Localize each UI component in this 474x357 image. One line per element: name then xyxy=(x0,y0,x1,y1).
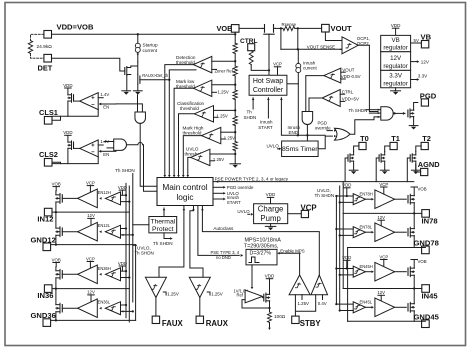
wire ladder seg4 xyxy=(234,126,236,142)
buffer EN45H xyxy=(372,262,395,281)
wire EN45L buffer out xyxy=(395,306,407,308)
wire EN12H inputs xyxy=(121,194,131,203)
svg-text:VCP: VCP xyxy=(379,254,388,259)
label T=290/305ms xyxy=(244,244,279,250)
transistor EN12H FET xyxy=(56,193,62,203)
pad T0 xyxy=(359,142,366,149)
pad GND36 xyxy=(43,319,51,327)
wire trunk t2 right xyxy=(339,186,341,311)
amp EN36H xyxy=(99,268,120,281)
svg-text:VOB: VOB xyxy=(52,181,61,186)
label 1.25V (STBY) xyxy=(298,295,310,306)
wire CLS2 FET source down xyxy=(67,148,69,163)
label Inrush current xyxy=(303,60,317,70)
supply VDD (EN45H) xyxy=(342,255,351,268)
pin GND36 label xyxy=(31,311,56,320)
wire ladder seg1 xyxy=(234,54,236,67)
ground Q1 xyxy=(122,91,131,95)
svg-text:VDD: VDD xyxy=(391,23,401,28)
wire EN78L inputs xyxy=(335,228,353,237)
wire GND45 xyxy=(348,320,426,322)
wire CLS1 loop xyxy=(52,110,98,117)
wire RAUX comp to logic xyxy=(190,206,203,277)
label EN78H xyxy=(360,191,373,196)
supply VDD (CLS1) xyxy=(63,83,72,95)
label Th SHDN (near trunk top) xyxy=(115,168,135,173)
buffer EN78L xyxy=(372,223,395,242)
svg-text:Ref: Ref xyxy=(237,293,244,298)
label 1.25V stub (UVLO) xyxy=(210,157,224,162)
pin T0 label xyxy=(360,134,369,143)
resistor ladder R2 xyxy=(233,43,237,53)
pad FAUX xyxy=(152,316,159,323)
pin GND45 label xyxy=(414,312,440,321)
wire GND12 to GND36 link xyxy=(135,245,137,321)
wire EN45H amp to buffer xyxy=(365,271,371,273)
svg-text:END: END xyxy=(289,130,299,135)
wire EN78L FET source xyxy=(413,236,415,248)
svg-text:Th SHDN: Th SHDN xyxy=(134,250,154,255)
svg-text:1.4V: 1.4V xyxy=(100,92,109,97)
label VDD=5V stub xyxy=(340,96,359,101)
wire second input AND V1 xyxy=(137,95,139,112)
arrow FAUX into logic xyxy=(183,208,186,210)
svg-text:VOUT SENSE: VOUT SENSE xyxy=(307,45,335,50)
label Th SHDN (thermal out) xyxy=(153,241,173,246)
svg-text:D=3/27%: D=3/27% xyxy=(250,251,272,257)
wire ladder seg5 xyxy=(234,151,236,164)
wire UVLO output xyxy=(186,157,190,177)
wire EN45L FET source xyxy=(413,311,415,321)
label UVLO (charge pump) xyxy=(237,209,253,215)
label Inrush END xyxy=(288,125,301,135)
wire trunk t1 right xyxy=(335,196,337,304)
amp EN12L xyxy=(99,225,120,238)
pad CLS2 xyxy=(44,159,52,167)
amp EN36L xyxy=(99,302,120,315)
wire IN36 xyxy=(52,287,129,289)
wire CLS2 loop xyxy=(52,157,98,164)
svg-text:DET: DET xyxy=(38,64,53,73)
svg-text:AGND: AGND xyxy=(418,160,440,169)
wire CTRL gate line xyxy=(268,41,270,76)
transistor PGD FET xyxy=(408,109,414,118)
svg-text:VDD=VOB: VDD=VOB xyxy=(57,23,94,32)
wire EN12H buffer out xyxy=(62,197,77,199)
supply 12V (EN12L) xyxy=(87,213,95,227)
wire VB out xyxy=(411,42,422,44)
svg-text:Controller: Controller xyxy=(253,87,284,94)
svg-text:EN45H: EN45H xyxy=(360,264,373,269)
wire EN36H FET drain xyxy=(55,267,57,271)
label Inrush START (hot swap) xyxy=(258,120,273,130)
pin FAUX label xyxy=(162,319,184,328)
block Charge Pump xyxy=(254,204,288,224)
wire trunk t3 right xyxy=(342,182,344,289)
wire GND78 to GND45 link xyxy=(347,248,349,322)
wire EN12L buffer out xyxy=(62,231,77,233)
block 12V regulator xyxy=(381,52,411,71)
wire trunk t1 left xyxy=(125,183,127,317)
label PSE TYPE 3,4 xyxy=(211,250,240,260)
wire EN36L inputs xyxy=(121,304,134,313)
transistor EN36H FET xyxy=(56,269,62,279)
svg-text:1.25V: 1.25V xyxy=(211,291,223,296)
transistor EN45H FET xyxy=(408,267,414,277)
block MPS pulse xyxy=(246,249,277,265)
pin GND12 label xyxy=(31,235,56,244)
supply VOB (IN45) xyxy=(411,259,427,268)
label UVLO ThSHDN right trunk xyxy=(315,188,335,198)
wire GND36 xyxy=(51,319,136,321)
ground PGD FET xyxy=(409,126,418,130)
wire thermal to logic xyxy=(163,208,166,217)
wire T1 gate xyxy=(376,158,379,182)
svg-text:Th: Th xyxy=(247,110,253,115)
label EN12L xyxy=(98,223,111,228)
wire EN78L buffer out xyxy=(395,231,407,233)
wire V2 output xyxy=(306,125,308,142)
svg-text:1.25V: 1.25V xyxy=(224,135,235,140)
block VB regulator xyxy=(381,35,411,51)
pad VOUT xyxy=(322,24,330,32)
svg-text:1.25V: 1.25V xyxy=(298,301,310,306)
wire EN12H FET drain xyxy=(55,191,57,195)
pin CLS2 label xyxy=(39,150,58,159)
pin IN36 label xyxy=(37,291,53,300)
comparator classification xyxy=(194,106,213,122)
pad PGD xyxy=(421,99,428,106)
wire mark low output xyxy=(173,88,194,177)
label EN (CLS2) xyxy=(99,150,116,157)
wire to inrush source xyxy=(297,49,300,63)
wire detection output xyxy=(163,65,193,178)
transistor hot swap FET xyxy=(263,25,276,41)
label Th SHDN (PGD gate) xyxy=(349,108,368,113)
transistor EN78H FET xyxy=(408,194,414,204)
wire Th SHDN out xyxy=(164,233,173,240)
amp EN12H xyxy=(99,192,120,205)
svg-text:VDD: VDD xyxy=(63,83,72,88)
svg-text:regulator: regulator xyxy=(383,63,407,70)
pad STBY xyxy=(292,316,299,323)
transistor EN78L FET xyxy=(408,227,414,237)
wire timer output xyxy=(318,136,332,149)
supply VDD (EN36H) xyxy=(118,261,127,271)
label Detection threshold xyxy=(176,55,196,65)
comparator STBY 1.25V xyxy=(289,275,310,295)
amp EN45H xyxy=(353,266,365,277)
label EN45L xyxy=(360,300,373,305)
svg-text:Protect: Protect xyxy=(152,226,174,233)
svg-text:EN12L: EN12L xyxy=(98,223,111,228)
svg-text:STBY: STBY xyxy=(300,319,322,328)
supply VOB (IN12) xyxy=(52,181,61,191)
comparator FAUX xyxy=(145,277,166,297)
wire V1 output down to logic xyxy=(140,123,157,186)
wire detection + input from ladder xyxy=(212,60,237,62)
buffer EN78H xyxy=(372,190,395,209)
comparator amp CLS1 xyxy=(80,93,99,110)
svg-text:Th SHDN: Th SHDN xyxy=(153,241,173,246)
pad CLS1 xyxy=(44,117,52,125)
comparator detection xyxy=(193,56,211,72)
wire OCP output xyxy=(358,45,378,111)
transistor EN12L FET xyxy=(56,227,62,237)
label VOUT stub xyxy=(341,67,355,72)
amp EN45L xyxy=(353,302,365,313)
wire ladder seg3 xyxy=(234,100,236,117)
current source inrush xyxy=(296,63,301,72)
pad VOB xyxy=(231,25,239,33)
transistor CLS2 FET xyxy=(68,141,74,150)
pad IN36 xyxy=(44,285,52,293)
label UVLO output xyxy=(213,191,239,196)
svg-text:no DND: no DND xyxy=(216,255,231,260)
svg-text:EN12H: EN12H xyxy=(98,190,111,195)
svg-text:VOB: VOB xyxy=(418,187,427,192)
comparator mark low xyxy=(193,80,211,96)
wire RAUX comp to pad xyxy=(199,298,201,317)
transistor CLS1 FET xyxy=(68,94,74,103)
wire ladder seg2 xyxy=(234,76,236,90)
wire EN36H inputs xyxy=(121,270,131,279)
wire FAUX comp to logic xyxy=(159,206,184,277)
wire Rsense to VOUT pad xyxy=(295,27,322,29)
wire PGD AND mid input xyxy=(369,112,380,114)
label 1.4V (CLS1) xyxy=(98,92,109,98)
supply VDD (regulators) xyxy=(391,23,401,35)
resistor 100ohm xyxy=(268,312,272,323)
resistor ladder R3 xyxy=(233,66,237,76)
label EN12H xyxy=(98,190,111,195)
wire RAUX>Det_th to logic xyxy=(140,79,171,81)
label Mark low threshold xyxy=(176,79,195,89)
wire EN78H buffer out xyxy=(395,198,407,200)
svg-text:Rsense: Rsense xyxy=(282,22,297,27)
pin VCP label xyxy=(301,204,317,213)
wire VOUT pad to OCP xyxy=(325,32,342,41)
pin IN78 label xyxy=(422,217,438,226)
svg-text:CLS2: CLS2 xyxy=(39,150,58,159)
op-amp ref xyxy=(245,290,262,303)
wire EN36H buffer out xyxy=(62,273,77,275)
label VDD-0.5V stub xyxy=(341,74,361,79)
svg-text:threshold: threshold xyxy=(180,106,199,111)
pad GND78 xyxy=(422,246,430,254)
pin RAUX label xyxy=(206,319,229,328)
wire STBY pad to comps xyxy=(295,295,315,316)
wire VOUT comp output xyxy=(306,76,324,112)
wire GND78 xyxy=(348,247,426,249)
wire MPS to ref amp xyxy=(251,265,254,289)
amp EN78H xyxy=(353,194,365,205)
svg-text:PGD: PGD xyxy=(420,92,437,101)
pin VOB label xyxy=(217,24,233,33)
ground charge pump xyxy=(265,224,276,231)
svg-text:Autoclass: Autoclass xyxy=(213,226,234,231)
label Mark High threshold xyxy=(183,126,204,136)
wire CLS1 FET source down xyxy=(67,101,69,116)
wire Inrush START into hot swap xyxy=(267,98,270,118)
svg-text:IN78: IN78 xyxy=(422,217,438,226)
svg-text:Zener Ref: Zener Ref xyxy=(215,69,234,74)
svg-text:threshold: threshold xyxy=(183,131,202,136)
label Classification threshold xyxy=(177,101,205,111)
pad IN12 xyxy=(44,208,52,216)
wire Inrush END xyxy=(280,98,325,137)
wire 3.3V out xyxy=(411,73,429,81)
svg-text:VOB: VOB xyxy=(217,24,233,33)
wire EN78L FET drain xyxy=(413,213,415,228)
resistor ladder R5 xyxy=(233,116,237,126)
resistor R1 24.9k xyxy=(28,41,52,54)
wire ref amp to FET gate xyxy=(263,297,264,299)
svg-text:VCP: VCP xyxy=(379,182,388,187)
comparator amp CLS2 xyxy=(80,140,99,157)
wire classification output xyxy=(177,114,194,178)
svg-text:VDD: VDD xyxy=(265,274,275,279)
wire EN36L FET source xyxy=(55,312,57,321)
wire ref FET source xyxy=(269,301,271,312)
pin STBY label xyxy=(300,319,322,328)
wire AGND pad xyxy=(416,164,421,172)
wire inrush source to box xyxy=(287,73,298,136)
svg-text:5V: 5V xyxy=(414,38,419,43)
svg-text:RAUX: RAUX xyxy=(206,319,229,328)
label PGD override output xyxy=(213,185,254,190)
label 1.4V (CLS2) xyxy=(98,139,109,145)
block 85ms Timer xyxy=(282,141,319,157)
wire sense to OCP xyxy=(340,48,342,50)
wire EN36L FET drain xyxy=(55,289,57,305)
resistor ladder R4 xyxy=(233,90,237,100)
wire 12V out xyxy=(411,60,430,65)
wire T2 gate xyxy=(407,158,410,182)
gate OR1 xyxy=(334,128,350,140)
svg-text:VOUT: VOUT xyxy=(342,67,355,72)
pin DET label xyxy=(38,64,53,73)
svg-text:VOB: VOB xyxy=(418,259,427,264)
svg-text:T0: T0 xyxy=(360,134,369,143)
svg-text:PGD override: PGD override xyxy=(227,185,254,190)
svg-text:100Ω: 100Ω xyxy=(274,314,286,319)
svg-text:VDD: VDD xyxy=(63,130,72,135)
svg-text:GND45: GND45 xyxy=(414,312,440,321)
label Inrush START output xyxy=(213,195,241,205)
supply VDD (ref FET) xyxy=(265,274,275,292)
wire EN78H amp to buffer xyxy=(365,198,371,200)
ground Q2 xyxy=(133,91,142,95)
supply VCP (IN36) xyxy=(86,256,95,270)
buffer EN45L xyxy=(372,298,395,317)
wire OR top input xyxy=(327,130,332,132)
comparator STBY 0.4V xyxy=(311,275,328,295)
label UVLO threshold xyxy=(185,147,204,157)
svg-text:EN78H: EN78H xyxy=(360,191,373,196)
svg-text:VB: VB xyxy=(391,37,399,44)
label 1.25V stub (mark high) xyxy=(221,135,235,140)
svg-text:3.3V: 3.3V xyxy=(389,73,403,80)
wire EN36H FET source xyxy=(55,278,57,289)
svg-text:logic: logic xyxy=(176,192,193,202)
wire PGD FET source xyxy=(413,117,415,126)
wire trunk t3 to thermal xyxy=(133,224,149,226)
wire VOUT SENSE xyxy=(281,48,342,50)
label startup current xyxy=(143,43,159,54)
resistor ladder R6 xyxy=(233,142,237,151)
svg-text:EN78L: EN78L xyxy=(360,224,373,229)
comparator UVLO xyxy=(191,149,210,165)
svg-text:CTRL: CTRL xyxy=(342,89,354,94)
block Thermal Protect xyxy=(149,217,177,234)
wire mark high + input from ladder xyxy=(221,131,237,133)
transistor Q2 xyxy=(138,75,140,85)
pad GND12 xyxy=(43,243,51,251)
label 100ohm xyxy=(274,314,286,319)
svg-text:VDD: VDD xyxy=(266,192,276,197)
wire EN45L amp to buffer xyxy=(365,306,371,308)
wire EN78L amp to buffer xyxy=(365,231,371,233)
svg-text:GND36: GND36 xyxy=(31,311,56,320)
svg-text:PSE POWER TYPE 2, 3, 4 or lega: PSE POWER TYPE 2, 3, 4 or legacy xyxy=(215,177,289,182)
supply VCP (IN78) xyxy=(379,182,388,195)
ground T1 xyxy=(380,170,389,174)
wire FET to Rsense xyxy=(276,27,283,29)
pad IN45 xyxy=(422,285,430,293)
label MPS=10/18mA xyxy=(245,237,282,243)
wire enable MPS from comp xyxy=(299,253,301,275)
block 3.3V regulator xyxy=(381,70,411,87)
pin IN45 label xyxy=(422,292,439,301)
wire PGD AND top input xyxy=(366,108,381,110)
svg-text:START: START xyxy=(227,200,241,205)
wire EN78H inputs xyxy=(335,195,353,204)
svg-text:VCP: VCP xyxy=(86,256,95,261)
comparator OCP xyxy=(342,37,358,54)
resistor Rsense xyxy=(282,22,297,31)
svg-text:Inrush: Inrush xyxy=(260,120,273,125)
wire PSE TYPE to MPS box xyxy=(198,206,243,257)
svg-text:Th SHDN: Th SHDN xyxy=(115,168,135,173)
svg-text:IN12: IN12 xyxy=(37,214,53,223)
wire IN45 xyxy=(343,287,422,289)
label Zener Ref stub xyxy=(212,69,234,74)
svg-text:UVLO: UVLO xyxy=(237,209,250,214)
supply VOB (IN36) xyxy=(52,257,61,267)
pin CLS1 label xyxy=(39,108,58,117)
supply VDD (EN78H) xyxy=(342,183,351,196)
label 5V xyxy=(414,38,419,43)
wire EN12H FET source xyxy=(55,202,57,212)
svg-text:Hot Swap: Hot Swap xyxy=(253,78,283,85)
wire EN45L inputs xyxy=(335,303,353,312)
svg-text:START: START xyxy=(258,125,273,130)
wire below resistor xyxy=(268,323,271,331)
wire Th SHDN into hot swap xyxy=(252,98,255,109)
wire trunk t3 UVLO/ThSHDN xyxy=(132,174,134,303)
wire EN45H inputs xyxy=(335,267,353,276)
wire IN12 xyxy=(52,211,129,213)
svg-text:EN36L: EN36L xyxy=(98,300,111,305)
svg-text:T=290/305ms,: T=290/305ms, xyxy=(244,244,279,250)
pin GND78 label xyxy=(414,239,439,248)
svg-text:24.9kΩ: 24.9kΩ xyxy=(37,44,53,50)
wire T2 pad to FET xyxy=(416,146,421,151)
svg-text:T2: T2 xyxy=(422,134,431,143)
supply 12V (EN45L) xyxy=(377,290,385,303)
label 1.25V stub (mark low) xyxy=(212,89,229,94)
